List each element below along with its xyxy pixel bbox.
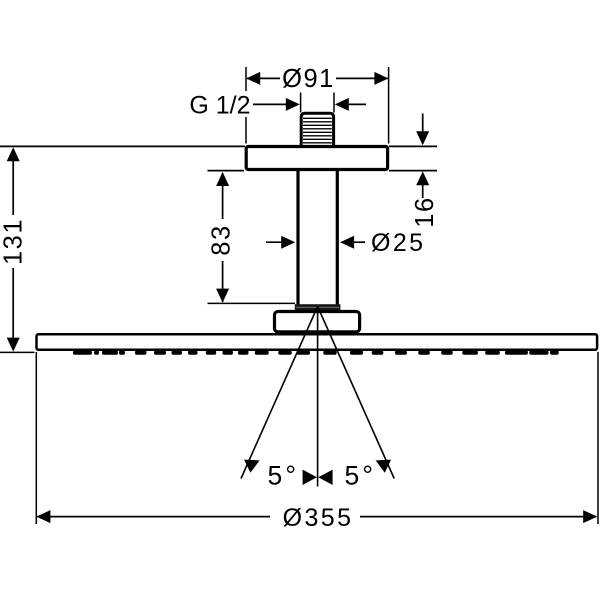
dim G1/2: extension line right	[333, 93, 335, 113]
dim 83: down arrow	[216, 289, 229, 303]
bowtie arrow right	[318, 470, 332, 485]
thread ribs	[303, 118, 332, 143]
ceiling line left	[0, 145, 245, 147]
spray left line	[241, 307, 318, 479]
dim 16: up arrow	[416, 171, 429, 185]
dim 83: up arrow	[216, 172, 229, 186]
dim 83: line upper segment	[222, 173, 224, 219]
dim 131: line upper segment	[12, 150, 14, 215]
dim 83: line lower segment	[222, 261, 224, 302]
dim G1/2: text backing	[240, 91, 253, 117]
dim G1/2: arrow right	[335, 98, 349, 111]
dim O91: arrow right	[374, 72, 388, 85]
spray left arrowhead	[244, 460, 260, 473]
svg-text:Ø91: Ø91	[282, 65, 335, 93]
dim O91: extension line right	[388, 67, 390, 144]
dim O25: arrow left	[281, 236, 295, 249]
plate bottom leader right (16 dim)	[389, 170, 437, 172]
dim 131: bottom extension	[0, 351, 35, 353]
dim O91: extension line left	[245, 67, 247, 144]
plate bottom leader left (83 dim)	[208, 170, 245, 172]
dim G1/2: leader right	[349, 103, 366, 105]
svg-text:5°: 5°	[268, 461, 297, 491]
svg-text:G 1/2: G 1/2	[189, 92, 250, 120]
dim O91: arrow left	[246, 72, 260, 85]
dim 131: down arrow	[7, 338, 20, 352]
spray right line	[318, 307, 395, 479]
dim O25: leader right	[354, 241, 365, 243]
svg-text:131: 131	[0, 218, 28, 265]
pipe bottom dark band	[295, 304, 341, 310]
dim 16: lower line	[422, 185, 424, 198]
ceiling line right	[389, 145, 437, 147]
svg-text:83: 83	[208, 224, 236, 255]
dim 131: line lower segment	[12, 268, 14, 350]
dim O355: extension line left	[35, 352, 37, 524]
dim O355: line left segment	[37, 516, 270, 518]
thread connector G1/2	[301, 113, 333, 146]
svg-text:16: 16	[411, 196, 439, 227]
svg-text:5°: 5°	[345, 461, 374, 491]
dim G1/2: extension line left	[300, 93, 302, 113]
dim 131: up arrow	[7, 147, 20, 161]
pipe right wall	[336, 170, 339, 306]
dim O355: extension line right	[597, 352, 599, 524]
dim G1/2: leader left	[253, 103, 287, 105]
dim O25: arrow right	[340, 236, 354, 249]
dim O91: line left segment	[247, 77, 280, 79]
dim O25: leader left	[266, 241, 284, 243]
dim 83: bottom extension	[208, 302, 296, 304]
pipe left wall	[296, 170, 299, 306]
dim O91: line right segment	[336, 77, 388, 79]
ceiling plate	[246, 147, 387, 170]
spray center line	[317, 307, 319, 487]
dim O355: arrow right	[583, 510, 597, 523]
dim G1/2: arrow left	[286, 98, 300, 111]
shower head disc	[37, 334, 598, 350]
dim O355: line right segment	[360, 516, 597, 518]
dim O355: arrow left	[36, 510, 50, 523]
nozzle dashes	[73, 351, 559, 355]
connector block	[275, 312, 360, 332]
bowtie arrow left	[303, 470, 317, 485]
svg-text:Ø25: Ø25	[371, 229, 425, 257]
dim O355: text	[272, 503, 358, 530]
dim 16: down arrow	[416, 131, 429, 145]
spray right arrowhead	[376, 460, 392, 473]
svg-text:Ø355: Ø355	[283, 504, 354, 532]
dim 16: upper line	[422, 114, 424, 145]
